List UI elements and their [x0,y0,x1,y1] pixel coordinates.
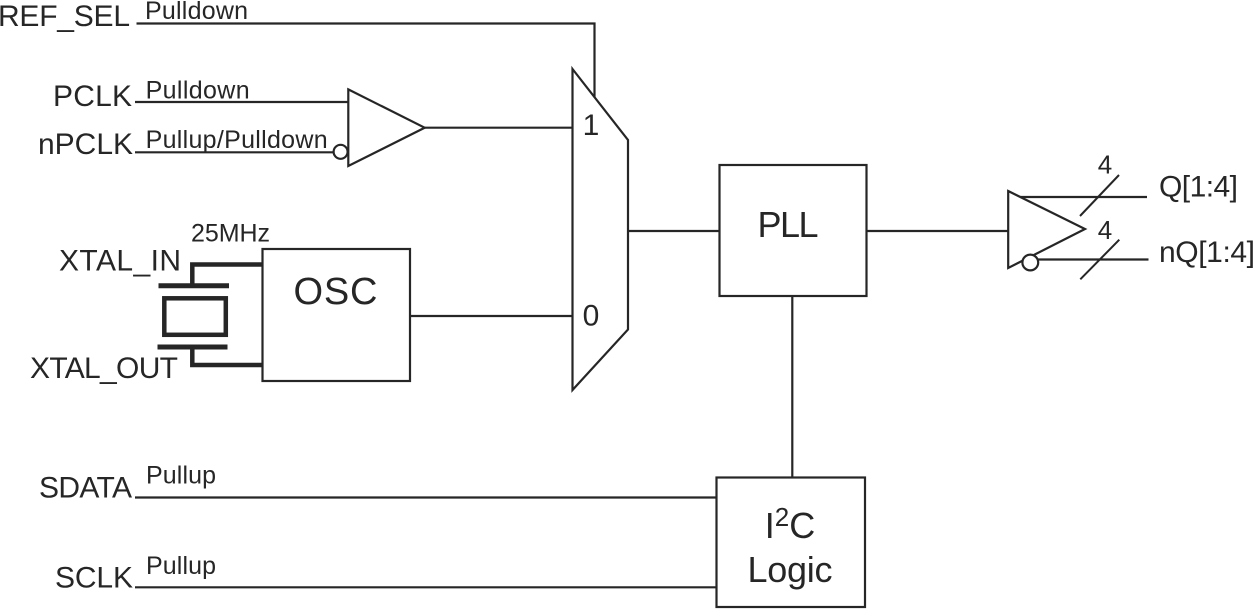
svg-text:Logic: Logic [748,549,833,590]
svg-text:OSC: OSC [294,271,378,313]
I2C Logic block [717,478,866,608]
svg-text:XTAL_IN: XTAL_IN [59,245,181,278]
wire PCLK to input buffer [135,101,348,103]
wire nPCLK to input buffer bubble [135,151,333,153]
svg-text:Pullup: Pullup [146,462,216,490]
wire XTAL_IN to OSC [192,265,262,286]
crystal Y1 body [164,298,226,335]
wire XTAL_OUT to OSC [192,347,262,365]
wire mux output to PLL input [628,230,720,232]
oscillator block OSC [263,249,411,381]
wire SDATA to I2C Logic [135,496,717,498]
crystal Y1 [158,265,263,366]
svg-text:Pulldown: Pulldown [145,0,248,25]
wire nQ bus output [1037,258,1149,260]
svg-text:nPCLK: nPCLK [38,128,133,161]
crystal Y1 bottom plate [158,345,228,350]
output buffer U3 (Q/nQ driver) [1008,191,1085,268]
wire PLL to I2C Logic [791,296,793,478]
svg-text:REF_SEL: REF_SEL [0,0,130,33]
inverting bubble on U1 nPCLK input [334,145,348,159]
wire input buffer output to mux input 1 [425,127,573,129]
svg-text:0: 0 [583,300,600,333]
wire REF_SEL to mux select [137,24,595,98]
svg-text:25MHz: 25MHz [191,219,270,247]
svg-text:1: 1 [583,109,600,142]
wire Q bus output [1020,196,1148,198]
svg-text:PLL: PLL [758,204,819,245]
svg-text:4: 4 [1098,150,1112,180]
bus width slash on Q [1080,175,1119,216]
svg-text:Pullup: Pullup [146,552,216,580]
svg-text:PCLK: PCLK [53,80,132,113]
svg-text:4: 4 [1098,215,1112,245]
wire OSC output to mux input 0 [410,315,573,317]
svg-text:XTAL_OUT: XTAL_OUT [30,352,178,385]
svg-text:SCLK: SCLK [55,561,133,594]
crystal Y1 top plate [159,283,230,288]
input buffer U1 (PCLK/nPCLK receiver) [348,89,424,166]
svg-text:SDATA: SDATA [39,472,132,505]
PLL block [720,165,867,296]
svg-text:Q[1:4]: Q[1:4] [1159,171,1238,204]
wire PLL output to output buffer [867,230,1009,232]
mux U2 trapezoid [573,69,629,390]
inverting bubble on U3 nQ output [1022,255,1038,271]
svg-text:Pulldown: Pulldown [146,76,250,104]
svg-text:Pullup/Pulldown: Pullup/Pulldown [146,126,328,154]
svg-text:I2C: I2C [765,502,815,546]
bus width slash on nQ [1080,240,1119,280]
wire SCLK to I2C Logic [135,586,717,588]
svg-text:nQ[1:4]: nQ[1:4] [1159,236,1255,269]
